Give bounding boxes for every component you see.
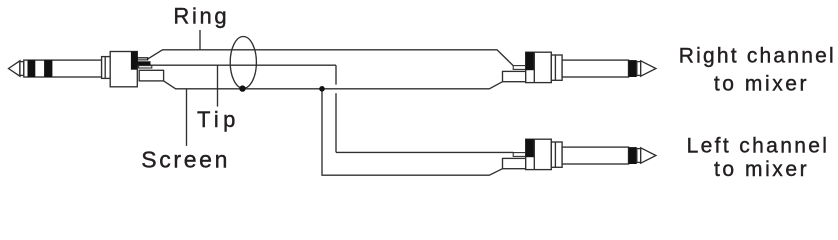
svg-text:Screen: Screen	[141, 147, 230, 173]
svg-text:to mixer: to mixer	[714, 158, 809, 181]
svg-text:Left channel: Left channel	[687, 134, 830, 157]
svg-text:Ring: Ring	[173, 4, 229, 29]
svg-text:to mixer: to mixer	[714, 73, 809, 96]
svg-text:Tip: Tip	[197, 107, 240, 132]
svg-text:Right channel: Right channel	[679, 45, 836, 68]
